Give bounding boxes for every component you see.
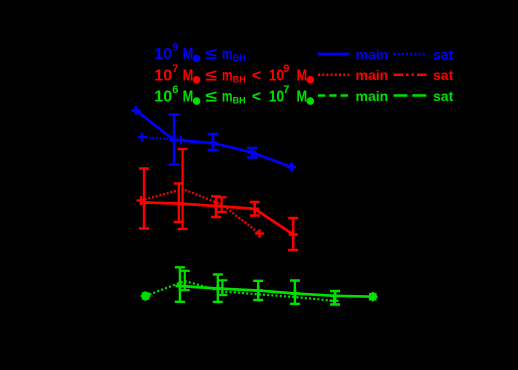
svg-text:BH: BH	[233, 74, 246, 84]
svg-text:7: 7	[283, 84, 289, 96]
svg-text:main: main	[356, 88, 389, 104]
svg-text:sat: sat	[433, 88, 454, 104]
svg-text:main: main	[356, 47, 389, 63]
svg-text:10: 10	[154, 89, 172, 106]
svg-text:M: M	[297, 67, 308, 85]
svg-text:10: 10	[269, 66, 284, 84]
svg-text:M: M	[183, 67, 194, 85]
svg-text:<: <	[252, 67, 261, 84]
svg-text:M: M	[297, 88, 308, 106]
svg-text:9: 9	[283, 63, 289, 75]
svg-text:6: 6	[172, 84, 178, 96]
svg-text:≤: ≤	[205, 45, 217, 63]
svg-text:M: M	[183, 88, 194, 106]
svg-text:m: m	[222, 87, 233, 105]
svg-text:7: 7	[172, 63, 178, 75]
svg-text:m: m	[222, 66, 233, 84]
svg-text:main: main	[356, 67, 389, 83]
svg-text:BH: BH	[233, 96, 246, 106]
svg-text:<: <	[252, 89, 261, 106]
svg-text:≤: ≤	[205, 87, 217, 105]
svg-text:9: 9	[172, 42, 178, 54]
svg-text:≤: ≤	[205, 66, 217, 84]
svg-text:10: 10	[269, 88, 284, 106]
svg-text:sat: sat	[433, 67, 454, 83]
svg-text:sat: sat	[433, 47, 454, 63]
svg-text:BH: BH	[233, 53, 246, 63]
svg-text:10: 10	[154, 46, 172, 63]
svg-text:10: 10	[154, 67, 172, 84]
svg-text:M: M	[183, 46, 194, 64]
svg-text:m: m	[222, 44, 233, 62]
